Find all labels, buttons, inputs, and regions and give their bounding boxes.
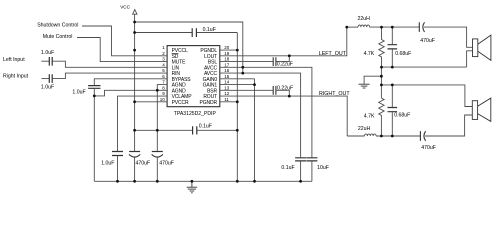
- svg-text:16: 16: [224, 68, 230, 73]
- capacitor C7 470uF (VCC bulk): [129, 152, 140, 158]
- junction PGND line / ground bus: [236, 180, 239, 183]
- svg-text:9: 9: [162, 91, 165, 96]
- wire AGND vertical through 470uF no.2: [156, 130, 158, 181]
- inductor L1 22uH (left output filter): [358, 25, 370, 27]
- wire mute control to MUTE pin 3: [77, 38, 167, 62]
- wire 0.68uF lower legs: [391, 85, 393, 136]
- wire BYPASS pin 6 to bypass cap: [94, 79, 167, 85]
- wire AGND pin 8 run to bypass bottom: [94, 90, 167, 96]
- junction AVCC line / pin 17: [241, 66, 244, 69]
- svg-text:4: 4: [162, 62, 165, 67]
- wire VCLAMP cap to ground bus: [117, 156, 119, 181]
- capacitor C10 0.1uF (AVCC decoupling): [295, 158, 306, 161]
- wire lower filter row to 470uF: [376, 135, 420, 137]
- svg-text:0.22uF: 0.22uF: [277, 85, 293, 91]
- svg-text:1: 1: [162, 45, 165, 50]
- svg-text:12: 12: [224, 91, 230, 96]
- junction ground symbol / ground bus: [191, 180, 194, 183]
- svg-text:TPA3125D2_PDIP: TPA3125D2_PDIP: [174, 111, 217, 117]
- capacitor C11 10uF (AVCC decoupling): [306, 158, 317, 161]
- speaker SPK1 (left) box: [473, 39, 478, 57]
- junction R1 / left zobel rail: [380, 66, 383, 69]
- svg-text:17: 17: [224, 62, 230, 67]
- capacitor C12 0.22uF (BSR bootstrap): [273, 86, 276, 95]
- junction VCC rail / pin 10 PVCCR: [133, 100, 136, 103]
- svg-text:8: 8: [162, 85, 165, 90]
- ground symbol (zobel networks): [359, 84, 370, 88]
- junction C14 / left zobel rail: [391, 66, 394, 69]
- junction GAIN drop / ground bus: [253, 180, 256, 183]
- wire AGND vertical down to decoupling line: [156, 90, 158, 130]
- wire PGNDR pin 11 stub: [220, 101, 238, 103]
- ground bus wire: [94, 180, 312, 182]
- wire 470uF upper to speaker: [424, 27, 473, 47]
- wire VCC rail down through 470uF no.1: [134, 130, 136, 181]
- wire GAIN1 pin 14 and gain drop to bus: [220, 79, 255, 182]
- IC U1 TPA3125D2 body: [167, 46, 220, 107]
- wire PVCCR pin 10 to VCC rail: [135, 101, 168, 103]
- wire left input to cap: [41, 60, 49, 62]
- wire BSR cap to ROUT: [276, 90, 289, 96]
- svg-text:13: 13: [224, 85, 230, 90]
- svg-text:LEFT_OUT: LEFT_OUT: [319, 51, 347, 57]
- wire bypass cap bottom to ground bus: [93, 89, 95, 182]
- svg-text:Shutdown Control: Shutdown Control: [37, 22, 78, 28]
- svg-text:0.1uF: 0.1uF: [199, 123, 212, 129]
- wire interchannel ground vertical: [380, 67, 382, 85]
- IC U1 left pin names: [172, 48, 193, 106]
- svg-text:4.7K: 4.7K: [364, 51, 375, 57]
- junction PGND line / pin 20 PGNDL: [236, 49, 239, 52]
- wire lower zobel rail: [381, 85, 472, 107]
- speaker SPK2 (right) horn: [478, 98, 491, 121]
- svg-text:Right Input: Right Input: [3, 74, 29, 80]
- wire BSL pin 18 to cap: [220, 61, 273, 63]
- ground symbol (bottom bus): [187, 181, 197, 193]
- VCC arrow symbol: [133, 10, 137, 15]
- wire VCC to top 0.1uF decoupling run: [135, 32, 238, 34]
- svg-text:0.22uF: 0.22uF: [277, 62, 293, 68]
- capacitor C6 0.1uF (VCC-PGND bottom decoupling): [193, 126, 197, 134]
- capacitor C16 470uF (right output AC coupling): [420, 131, 425, 141]
- svg-text:VCC: VCC: [120, 4, 130, 9]
- svg-text:10: 10: [160, 97, 166, 102]
- svg-text:22uH: 22uH: [358, 126, 371, 132]
- wire shutdown control to SD pin 2: [82, 26, 167, 56]
- svg-text:1.0uF: 1.0uF: [41, 85, 54, 91]
- wire 0.68uF upper legs: [391, 27, 393, 67]
- wire BSR pin 13 to cap: [220, 89, 273, 91]
- wire 10uF AVCC to bus: [311, 161, 313, 181]
- capacitor C3 1.0uF (right input coupling): [49, 74, 52, 83]
- junction PGND line / bottom 0.1uF run: [236, 129, 239, 132]
- svg-text:PGNDR: PGNDR: [200, 100, 218, 106]
- junction C7 leg / ground bus: [133, 180, 136, 183]
- IC U1 left pin numbers 1-10: [160, 45, 166, 102]
- capacitor C9 0.22uF (BSL bootstrap): [273, 57, 276, 66]
- wire 470uF lower to speaker: [425, 115, 472, 136]
- svg-text:10uF: 10uF: [317, 165, 329, 171]
- svg-text:1.0uF: 1.0uF: [101, 161, 114, 167]
- IC U1 right pin numbers 20-11: [224, 45, 230, 102]
- wire upper zobel rail to speaker: [382, 51, 473, 67]
- junction C10 leg / ground bus: [299, 180, 302, 183]
- wire right input cap to RIN pin 5: [52, 73, 167, 79]
- svg-text:470uF: 470uF: [136, 160, 151, 166]
- capacitor C4 1.0uF (BYPASS): [88, 86, 100, 89]
- capacitor C13 470uF (left output AC coupling): [419, 22, 424, 32]
- svg-text:22uH: 22uH: [358, 16, 371, 22]
- junction AGND drop / bottom 0.1uF run: [156, 129, 159, 132]
- svg-text:0.68uF: 0.68uF: [395, 51, 411, 57]
- wire bottom 0.1uF decoupling run: [135, 129, 238, 131]
- junction C8 leg / ground bus: [156, 180, 159, 183]
- wire AVCC pin 17 to 10uF drop: [220, 67, 312, 157]
- junction AGND pins 7-8: [156, 89, 159, 92]
- wire right input to cap: [41, 78, 49, 80]
- junction BSR cap / ROUT: [288, 95, 291, 98]
- svg-text:1.0uF: 1.0uF: [72, 89, 85, 95]
- junction R1 tap on left filter row: [380, 26, 383, 29]
- wire VCC to top AVCC run: [135, 22, 243, 73]
- junction PGND line / pin 11 PGNDR: [236, 100, 239, 103]
- junction C5 leg / ground bus: [116, 180, 119, 183]
- junction R2 / right filter row: [380, 135, 383, 138]
- svg-text:Left Input: Left Input: [3, 57, 25, 63]
- wire PGND vertical line A: [236, 33, 238, 182]
- svg-text:14: 14: [224, 80, 230, 85]
- svg-text:470uF: 470uF: [421, 145, 436, 151]
- wire 0.1uF AVCC to bus: [300, 161, 302, 181]
- junction VCC rail / top AVCC run: [133, 21, 136, 24]
- svg-text:470uF: 470uF: [420, 38, 435, 44]
- svg-text:15: 15: [224, 74, 230, 79]
- svg-text:0.1uF: 0.1uF: [281, 165, 294, 171]
- junction GAIN0-GAIN1 tie: [253, 83, 256, 86]
- resistor R1 4.7K (left zobel): [379, 27, 384, 67]
- junction R2 / right zobel rail: [380, 84, 383, 87]
- wire upper filter row to 470uF: [370, 26, 420, 28]
- capacitor C1 0.1uF (VCC-PGND top decoupling): [192, 28, 196, 37]
- junction bypass cap / AGND run: [93, 95, 96, 98]
- speaker SPK1 (left) horn: [478, 35, 491, 60]
- junction LEFT_OUT riser corner: [345, 26, 348, 29]
- speaker SPK2 (right) box: [472, 101, 477, 120]
- junction AVCC line / pin 16: [241, 72, 244, 75]
- capacitor C14 0.68uF (left zobel): [388, 45, 398, 49]
- svg-text:3: 3: [162, 57, 165, 62]
- IC U1 right pin names: [200, 48, 218, 106]
- svg-text:4.7K: 4.7K: [364, 114, 375, 120]
- capacitor C15 0.68uF (right zobel): [388, 108, 398, 112]
- wire LOUT pin 19 to LEFT_OUT: [220, 27, 347, 56]
- svg-text:0.1uF: 0.1uF: [203, 27, 216, 33]
- svg-text:5: 5: [162, 68, 165, 73]
- svg-text:6: 6: [162, 74, 165, 79]
- IC U1 SD overline: [172, 53, 179, 55]
- capacitor C8 470uF (VCC bulk): [152, 152, 163, 158]
- wire ground tap: [364, 76, 381, 84]
- svg-text:20: 20: [224, 45, 230, 50]
- junction VCC rail / top 0.1uF run: [133, 31, 136, 34]
- svg-text:18: 18: [224, 57, 230, 62]
- wire AGND pin 7 to pin 8 tie: [157, 85, 167, 91]
- junction C15 / right zobel rail: [391, 84, 394, 87]
- svg-text:RIGHT_OUT: RIGHT_OUT: [319, 91, 350, 97]
- capacitor C2 1.0uF (left input coupling): [49, 57, 52, 66]
- svg-text:7: 7: [162, 80, 165, 85]
- junction VCC rail / bottom 0.1uF run: [133, 129, 136, 132]
- junction BSL cap / LOUT: [288, 54, 291, 57]
- svg-text:470uF: 470uF: [159, 160, 174, 166]
- wire BSL cap to LOUT: [276, 56, 289, 62]
- wire LEFT_OUT corner to inductor: [347, 26, 358, 28]
- inductor L2 22uH (right output filter): [365, 134, 377, 136]
- junction C15 / right filter row: [391, 135, 394, 138]
- junction ground tap: [380, 75, 383, 78]
- wire GAIN0 pin 15: [220, 78, 255, 80]
- svg-text:1.0uF: 1.0uF: [41, 50, 54, 56]
- wire PGNDL pin 20 stub: [220, 49, 238, 51]
- resistor R2 4.7K (right zobel): [379, 85, 384, 136]
- wire ROUT pin 12 to RIGHT_OUT: [220, 96, 347, 136]
- junction VCC rail / pin 1 PVCCL: [133, 49, 136, 52]
- svg-text:19: 19: [224, 51, 230, 56]
- junction C14 tap on left filter row: [391, 26, 394, 29]
- svg-text:2: 2: [162, 51, 165, 56]
- wire VCLAMP pin 9 to cap: [118, 96, 168, 151]
- svg-text:PVCCR: PVCCR: [172, 100, 189, 106]
- capacitor C5 1.0uF (VCLAMP): [112, 152, 123, 156]
- VCC vertical rail wire: [134, 14, 136, 130]
- svg-text:Mute Control: Mute Control: [43, 34, 73, 40]
- svg-text:0.68uF: 0.68uF: [394, 113, 410, 119]
- svg-text:11: 11: [224, 97, 229, 102]
- wire RIGHT_OUT corner to inductor: [347, 135, 364, 137]
- wire left input cap to LIN pin 4: [52, 61, 167, 67]
- wire AVCC pin 16 to 0.1uF drop: [220, 73, 301, 157]
